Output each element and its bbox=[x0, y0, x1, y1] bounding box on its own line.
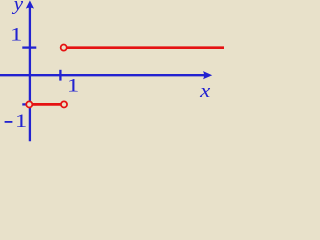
tick y=1 bbox=[22, 46, 36, 48]
y-axis arrowhead bbox=[26, 0, 34, 8]
x-axis arrowhead bbox=[203, 71, 212, 79]
x-axis bbox=[0, 74, 205, 76]
svg-text:1: 1 bbox=[10, 23, 22, 45]
label -1 minus sign bbox=[5, 121, 13, 123]
red segment y=-1 for 0<x<1 bbox=[30, 103, 65, 106]
open circle (0,-1) bbox=[26, 101, 32, 107]
tick x=1 bbox=[59, 70, 61, 81]
red segment y=1 for x>1 bbox=[65, 46, 225, 49]
svg-text:x: x bbox=[199, 80, 211, 102]
y-axis bbox=[29, 6, 31, 142]
tick y=-1 bbox=[22, 103, 36, 105]
svg-text:y: y bbox=[12, 0, 24, 15]
open circle (1,1) bbox=[61, 45, 67, 51]
step-function plot bbox=[0, 0, 224, 142]
svg-text:1: 1 bbox=[15, 110, 27, 132]
open circle (1,-1) bbox=[61, 101, 67, 107]
svg-text:1: 1 bbox=[67, 74, 79, 96]
